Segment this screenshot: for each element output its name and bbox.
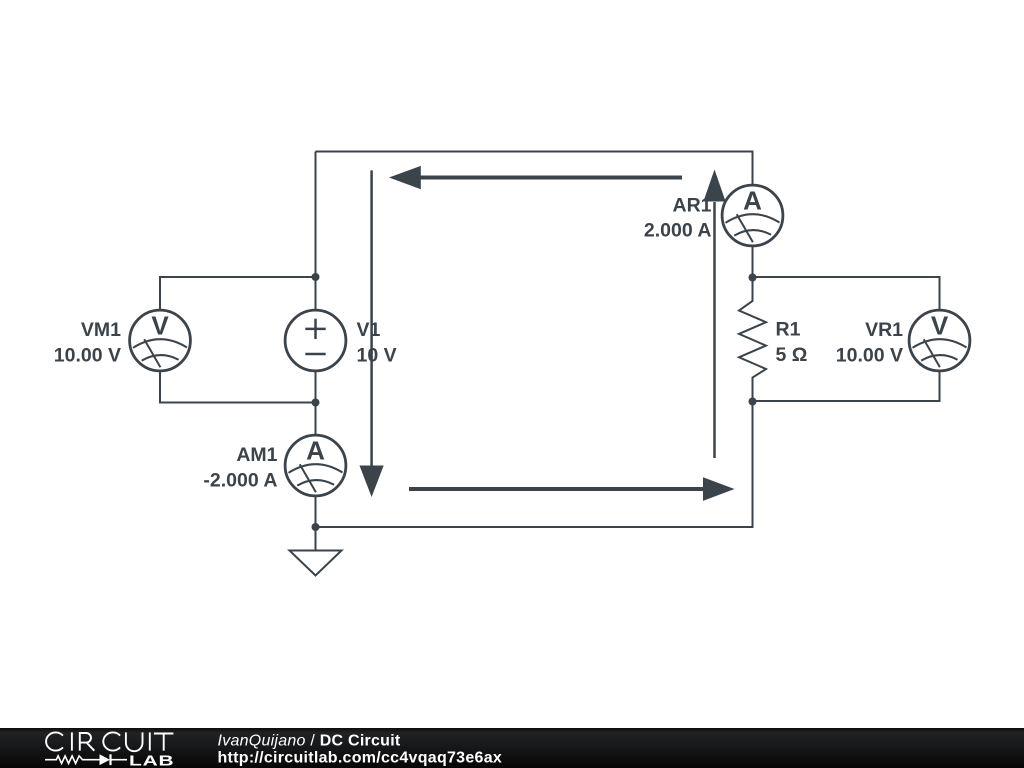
svg-text:V: V: [931, 310, 949, 340]
logo CIRCUIT (drawn letters): [46, 732, 173, 751]
svg-text:10.00 V: 10.00 V: [836, 345, 903, 367]
svg-text:IvanQuijano / DC Circuit: IvanQuijano / DC Circuit: [218, 733, 401, 750]
logo LAB: [129, 752, 175, 768]
footer bar: [0, 728, 1024, 768]
svg-text:2.000 A: 2.000 A: [644, 220, 712, 242]
svg-text:A: A: [306, 435, 325, 465]
logo diode triangle: [100, 754, 111, 765]
svg-text:5 Ω: 5 Ω: [776, 344, 808, 366]
svg-text:V: V: [151, 310, 169, 340]
svg-text:VR1: VR1: [865, 319, 903, 341]
voltmeter VM1: [130, 310, 191, 371]
wire VR1 branch bottom: [753, 371, 940, 401]
node junction dot left-top: [312, 273, 320, 281]
wire left vertical top segment: [315, 152, 317, 278]
svg-text:-2.000 A: -2.000 A: [203, 470, 277, 492]
svg-text:A: A: [743, 185, 762, 215]
svg-text:VM1: VM1: [81, 319, 121, 341]
svg-text:http://circuitlab.com/cc4vqaq7: http://circuitlab.com/cc4vqaq73e6ax: [218, 750, 503, 767]
wire main loop top: [316, 152, 753, 186]
wire VM1 branch top: [160, 277, 316, 310]
arrow up (current annotation): [703, 170, 725, 459]
wire AM1 leads: [315, 403, 317, 528]
node junction dot right-bottom: [749, 398, 757, 406]
node junction dot left-bottom: [312, 523, 320, 531]
svg-text:LAB: LAB: [129, 752, 175, 768]
ammeter AR1: [722, 185, 783, 246]
wire bottom of loop: [316, 402, 753, 528]
svg-text:10.00 V: 10.00 V: [54, 345, 121, 367]
voltmeter VR1: [909, 310, 970, 371]
svg-text:V1: V1: [357, 319, 381, 341]
ground: [315, 527, 317, 551]
svg-text:R1: R1: [776, 319, 801, 341]
logo resistor-diode line: [45, 754, 127, 765]
wire AR1 bottom lead: [752, 246, 754, 278]
resistor R1: [739, 278, 766, 402]
ammeter AM1: [285, 435, 346, 496]
node junction dot right-top: [749, 274, 757, 282]
arrow down (current annotation): [360, 170, 384, 497]
arrow right (current annotation): [409, 477, 735, 501]
svg-text:AM1: AM1: [236, 444, 277, 466]
node junction dot left-mid: [312, 399, 320, 407]
voltage source V1: [285, 310, 346, 371]
wire VR1 branch top: [753, 277, 940, 310]
svg-text:10 V: 10 V: [357, 345, 397, 367]
wire VM1 branch bottom: [160, 371, 316, 403]
wire V1 leads: [315, 277, 317, 403]
arrow left (current annotation): [389, 166, 682, 189]
